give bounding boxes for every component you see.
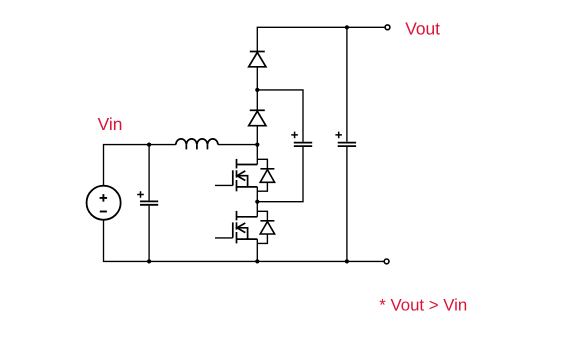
svg-text:* Vout > Vin: * Vout > Vin [379,295,467,314]
svg-text:Vout: Vout [405,18,440,38]
svg-text:Vin: Vin [98,114,123,134]
